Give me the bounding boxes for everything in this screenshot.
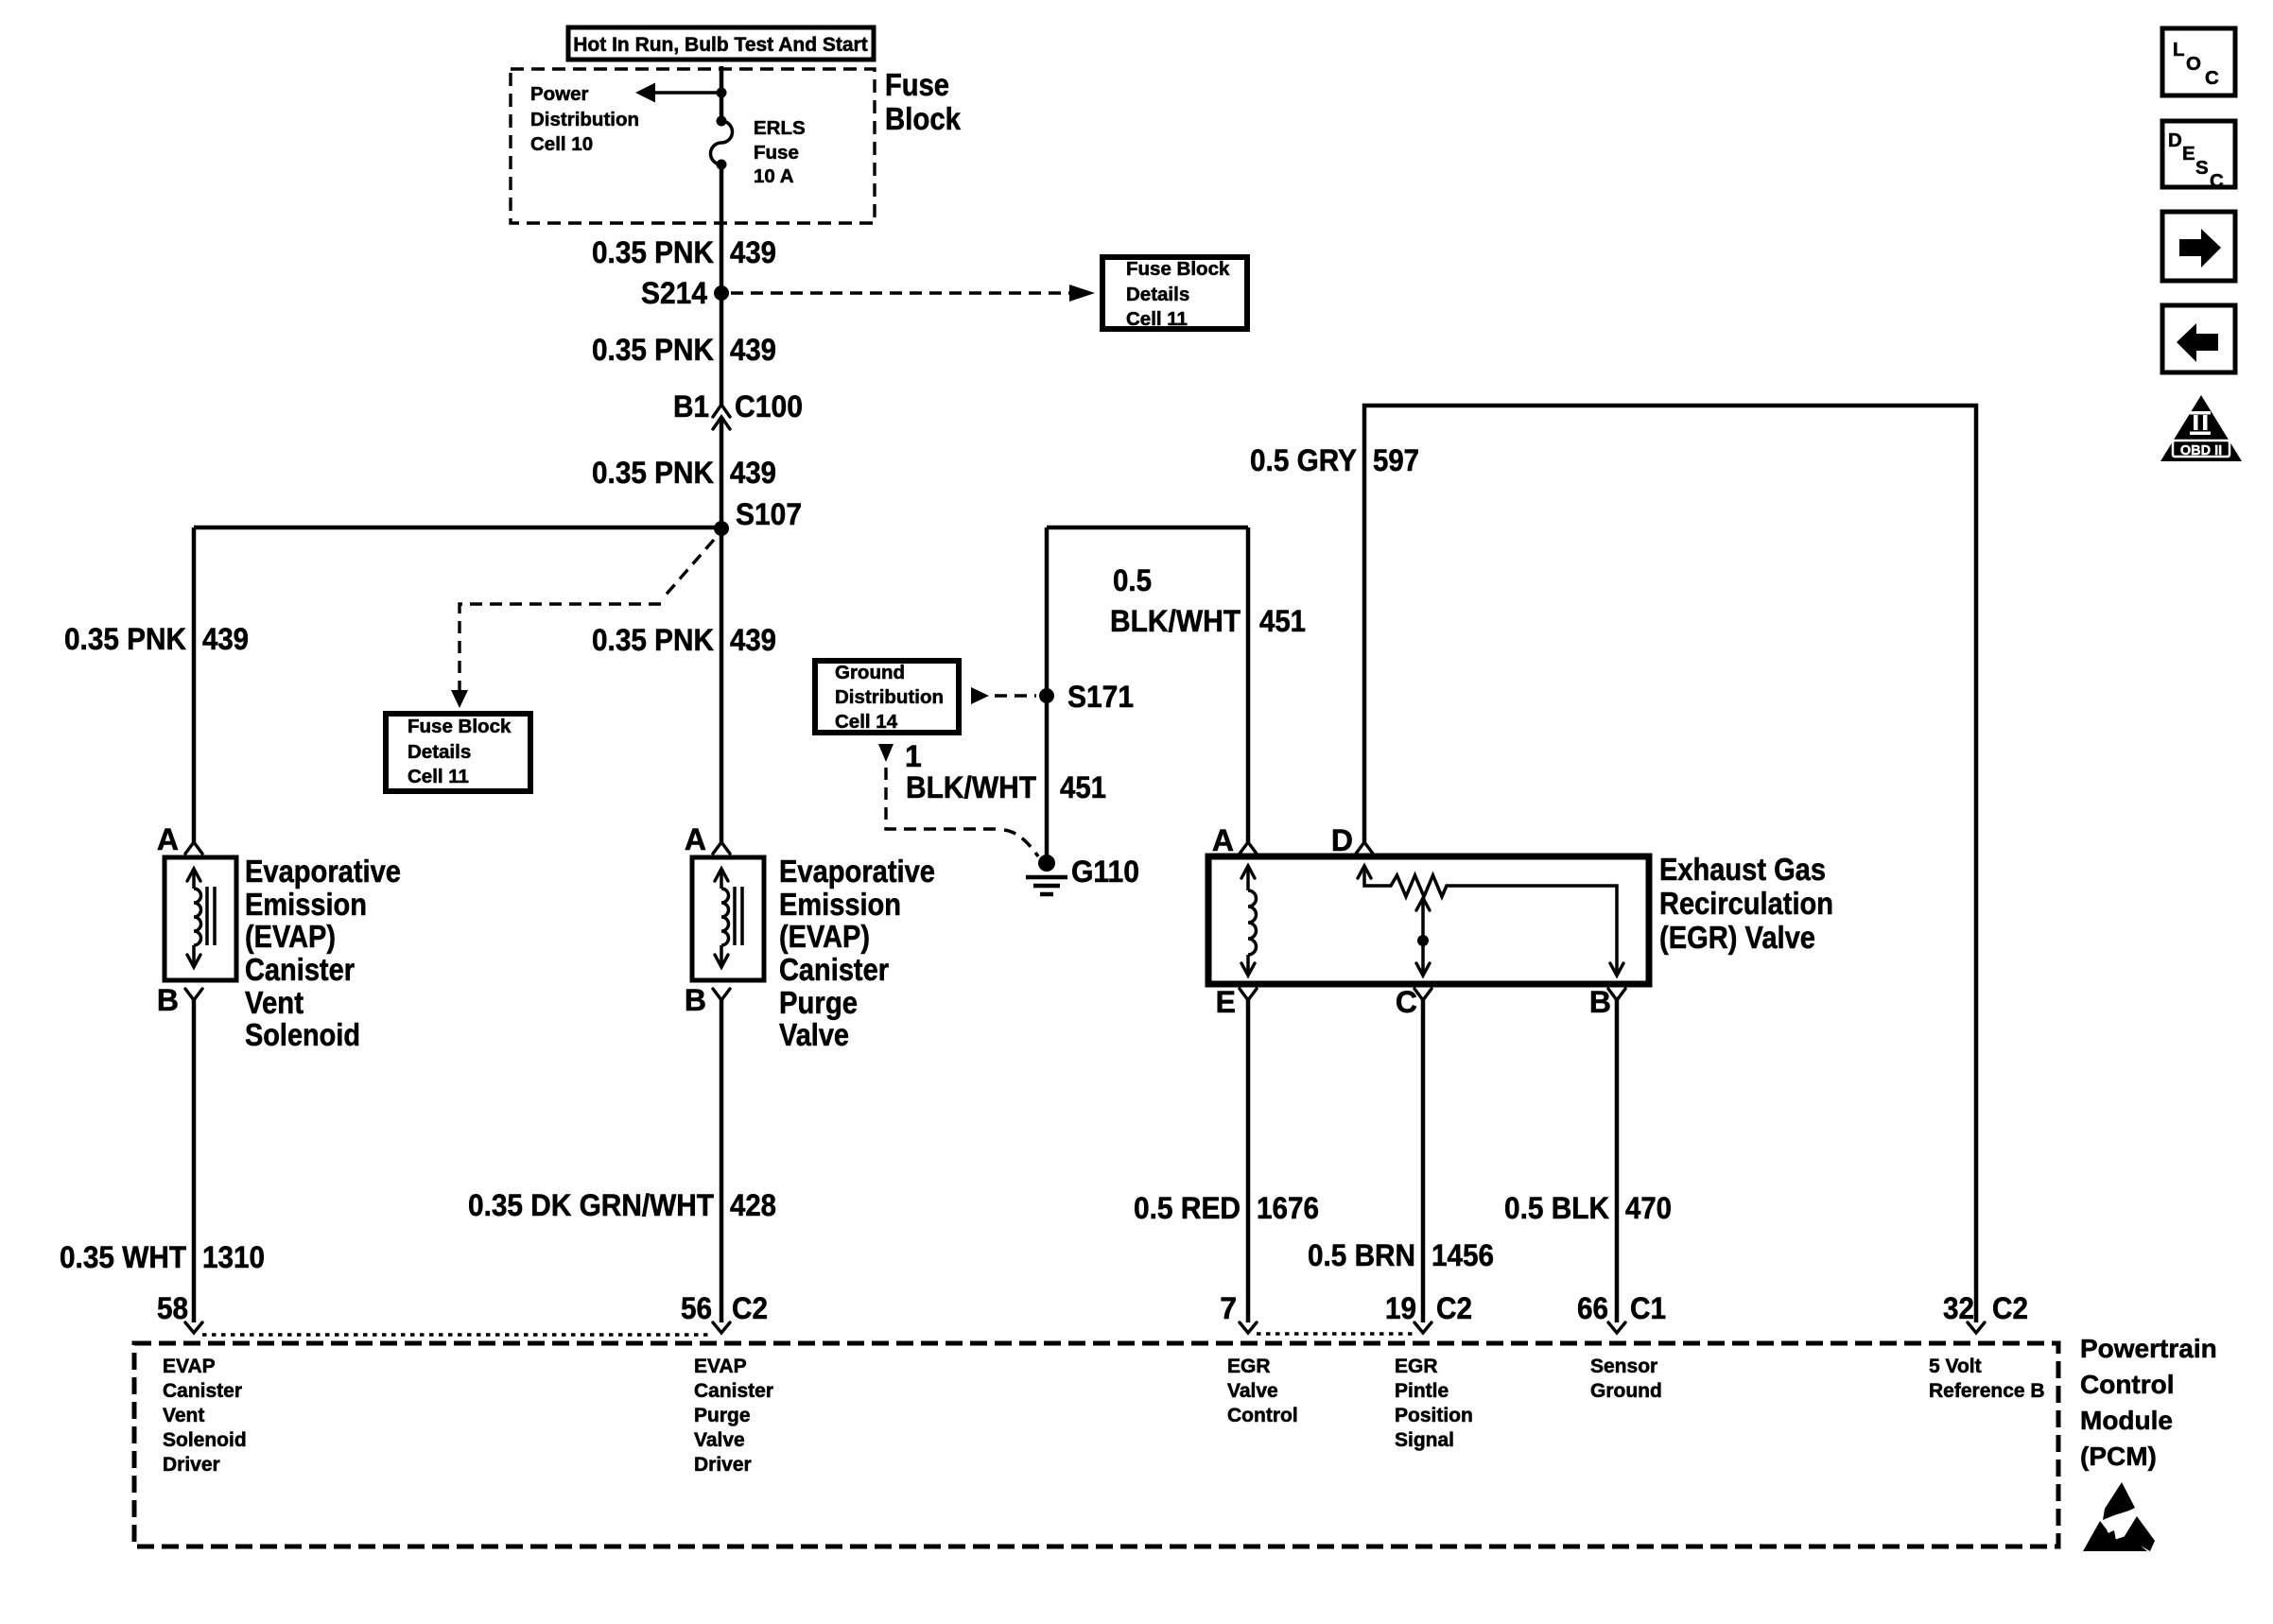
svg-text:C2: C2	[1992, 1291, 2028, 1325]
wire: EGR B to PCM 66	[1615, 1000, 1620, 1322]
svg-text:19: 19	[1385, 1291, 1416, 1325]
dotted connector line 58 to 56	[202, 1333, 713, 1336]
svg-text:Emission: Emission	[779, 887, 901, 922]
svg-text:0.5 RED: 0.5 RED	[1134, 1191, 1241, 1225]
svg-text:470: 470	[1625, 1191, 1672, 1225]
PCM function: 5 volt reference B	[1929, 1356, 2045, 1402]
svg-text:(PCM): (PCM)	[2080, 1442, 2157, 1471]
svg-text:A: A	[157, 822, 179, 856]
svg-text:A: A	[685, 822, 706, 856]
svg-text:Driver: Driver	[163, 1454, 220, 1476]
node S214	[641, 276, 729, 310]
label 0.35 WHT 1310	[60, 1240, 265, 1274]
dashed reference arrow to S171	[971, 687, 1036, 704]
svg-text:C: C	[1396, 985, 1417, 1019]
svg-text:Purge: Purge	[779, 985, 858, 1020]
box Fuse Block Details Cell 11 (upper)	[1102, 257, 1247, 330]
label 0.5 BLK/WHT 451 upper	[1110, 563, 1306, 638]
svg-text:Pintle: Pintle	[1395, 1380, 1449, 1402]
dashed reference arrow S214 to fuse block details	[731, 285, 1095, 302]
svg-text:Solenoid: Solenoid	[163, 1429, 247, 1451]
svg-text:0.35 PNK: 0.35 PNK	[64, 622, 186, 656]
svg-text:0.35 PNK: 0.35 PNK	[592, 623, 714, 657]
label EGR valve	[1659, 852, 1833, 955]
wire: ground loop top horizontal	[1047, 526, 1248, 530]
svg-text:S107: S107	[736, 497, 802, 531]
svg-text:C: C	[2210, 170, 2224, 192]
svg-text:0.35 DK GRN/WHT: 0.35 DK GRN/WHT	[468, 1188, 714, 1222]
wire: S214 to connector C100	[720, 293, 724, 405]
svg-text:Evaporative: Evaporative	[245, 854, 401, 889]
svg-text:BLK/WHT: BLK/WHT	[1110, 604, 1241, 638]
label Fuse Block	[885, 67, 962, 136]
svg-text:B: B	[157, 983, 179, 1017]
svg-text:56: 56	[681, 1291, 712, 1325]
svg-text:439: 439	[730, 456, 776, 490]
label 0.5 BLK 470	[1504, 1191, 1672, 1225]
wire: C100 to S107	[720, 417, 724, 528]
PCM function: EGR pintle position signal	[1395, 1356, 1473, 1451]
icon back arrow	[2162, 305, 2235, 372]
svg-text:1310: 1310	[202, 1240, 265, 1274]
svg-text:A: A	[1212, 823, 1234, 857]
svg-text:Ground: Ground	[835, 662, 905, 683]
svg-text:B1: B1	[673, 389, 709, 423]
label ERLS Fuse 10 A	[754, 117, 806, 187]
component: EGR valve	[1208, 823, 1649, 1019]
svg-text:66: 66	[1577, 1291, 1608, 1325]
fuse ERLS 10 A	[711, 116, 733, 170]
svg-text:E: E	[1216, 985, 1236, 1019]
label EVAP canister vent solenoid	[245, 854, 401, 1052]
svg-text:D: D	[1331, 823, 1353, 857]
svg-text:C2: C2	[732, 1291, 768, 1325]
svg-text:C2: C2	[1436, 1291, 1472, 1325]
svg-text:Reference B: Reference B	[1929, 1380, 2045, 1402]
label 0.35 PNK 439 center	[592, 623, 776, 657]
svg-text:Block: Block	[885, 101, 962, 136]
wire: fuse to S214	[720, 164, 724, 293]
svg-text:1676: 1676	[1257, 1191, 1319, 1225]
svg-text:Module: Module	[2080, 1406, 2173, 1435]
svg-text:EGR: EGR	[1395, 1356, 1438, 1377]
svg-text:Exhaust Gas: Exhaust Gas	[1659, 852, 1826, 887]
svg-text:B: B	[1589, 985, 1611, 1019]
svg-text:Fuse Block: Fuse Block	[1126, 258, 1230, 280]
box Ground Distribution Cell 14	[815, 661, 959, 733]
box Fuse Block Details Cell 11 (lower)	[386, 714, 530, 791]
svg-text:Control: Control	[2080, 1370, 2175, 1399]
label 0.35 PNK 439 row3	[592, 456, 776, 490]
svg-text:Driver: Driver	[694, 1454, 752, 1476]
svg-text:Canister: Canister	[694, 1380, 773, 1402]
svg-text:0.35 PNK: 0.35 PNK	[592, 333, 714, 367]
svg-text:Fuse: Fuse	[885, 67, 949, 102]
connector C100 terminal B1	[673, 389, 803, 429]
ground lead label 1 BLK/WHT 451 with half arrow	[878, 739, 1106, 856]
wire: feed into fuse block	[720, 66, 724, 121]
PCM function: EVAP canister purge valve driver	[694, 1356, 773, 1476]
svg-text:EVAP: EVAP	[694, 1356, 747, 1377]
svg-text:Cell 11: Cell 11	[1126, 308, 1188, 330]
svg-text:5 Volt: 5 Volt	[1929, 1356, 1982, 1377]
svg-text:OBD II: OBD II	[2180, 443, 2222, 458]
icon forward arrow	[2162, 212, 2235, 281]
svg-text:Hot In Run, Bulb Test And Star: Hot In Run, Bulb Test And Start	[573, 34, 867, 56]
svg-text:Sensor: Sensor	[1590, 1356, 1657, 1377]
svg-text:439: 439	[730, 235, 776, 269]
svg-text:439: 439	[730, 333, 776, 367]
node: power distribution tap	[717, 88, 727, 98]
svg-text:S214: S214	[641, 276, 707, 310]
PCM pin 7	[1220, 1291, 1257, 1333]
dashed reference S107 to fuse block details (lower)	[451, 540, 714, 708]
svg-text:Power: Power	[530, 83, 589, 105]
wire: 5V reference B from EGR pin D to PCM pin 32	[1364, 406, 1976, 1322]
svg-text:0.5 BRN: 0.5 BRN	[1308, 1238, 1415, 1272]
svg-text:7: 7	[1220, 1291, 1237, 1325]
icon LOC	[2162, 28, 2235, 95]
wire: loop right leg down to EGR pin A	[1246, 527, 1251, 842]
svg-text:L: L	[2173, 39, 2185, 60]
wire: S107 down to EVAP purge valve pin A	[720, 528, 724, 842]
svg-text:BLK/WHT: BLK/WHT	[906, 770, 1036, 804]
svg-text:(EVAP): (EVAP)	[779, 919, 870, 954]
svg-text:0.5 GRY: 0.5 GRY	[1250, 443, 1357, 477]
svg-text:597: 597	[1373, 443, 1419, 477]
PCM pin 56 C2	[681, 1291, 768, 1333]
node S107	[714, 497, 802, 536]
svg-text:Canister: Canister	[779, 952, 889, 987]
svg-text:Valve: Valve	[694, 1429, 745, 1451]
svg-text:0.35 PNK: 0.35 PNK	[592, 456, 714, 490]
PCM function: EVAP canister vent solenoid driver	[163, 1356, 247, 1476]
svg-text:Solenoid: Solenoid	[245, 1017, 360, 1052]
label 0.5 GRY 597	[1250, 443, 1419, 477]
svg-text:451: 451	[1060, 770, 1106, 804]
svg-text:G110: G110	[1071, 855, 1139, 889]
svg-text:Ground: Ground	[1590, 1380, 1662, 1402]
EGR pintle potentiometer	[1358, 866, 1371, 878]
svg-text:Details: Details	[408, 741, 471, 763]
label 0.35 PNK 439 left	[64, 622, 249, 656]
ESD sensitivity symbol	[2083, 1482, 2155, 1551]
label Power Distribution Cell 10	[530, 83, 639, 155]
label 0.35 PNK 439 row2	[592, 333, 776, 367]
svg-text:Distribution: Distribution	[530, 109, 639, 130]
svg-text:0.5 BLK: 0.5 BLK	[1504, 1191, 1609, 1225]
label 0.5 RED 1676	[1134, 1191, 1319, 1225]
svg-text:Control: Control	[1227, 1405, 1298, 1426]
svg-text:C1: C1	[1630, 1291, 1666, 1325]
svg-text:Fuse: Fuse	[754, 142, 799, 164]
wire: left branch down to EVAP vent solenoid pin A	[192, 527, 197, 842]
svg-text:Powertrain: Powertrain	[2080, 1334, 2217, 1363]
svg-text:Vent: Vent	[245, 985, 304, 1020]
svg-text:428: 428	[730, 1188, 776, 1222]
svg-text:E: E	[2182, 143, 2195, 164]
svg-text:Distribution: Distribution	[835, 686, 944, 708]
wire: branch to power distribution arrow	[652, 91, 721, 95]
svg-text:Fuse Block: Fuse Block	[408, 716, 512, 737]
svg-text:Position: Position	[1395, 1405, 1473, 1426]
svg-text:(EVAP): (EVAP)	[245, 919, 336, 954]
wire: EVAP purge valve B to PCM 56	[720, 1000, 724, 1322]
svg-text:Details: Details	[1126, 284, 1189, 305]
svg-text:58: 58	[157, 1291, 188, 1325]
svg-text:Valve: Valve	[779, 1017, 849, 1052]
title box Hot In Run, Bulb Test And Start	[568, 27, 874, 60]
svg-text:Canister: Canister	[245, 952, 355, 987]
label 0.35 DK GRN/WHT 428	[468, 1188, 776, 1222]
svg-text:S171: S171	[1067, 680, 1134, 714]
svg-text:Evaporative: Evaporative	[779, 854, 935, 889]
svg-text:C: C	[2205, 67, 2219, 89]
svg-text:Canister: Canister	[163, 1380, 242, 1402]
arrow to power distribution	[635, 83, 655, 103]
svg-text:451: 451	[1259, 604, 1306, 638]
svg-text:D: D	[2168, 130, 2182, 151]
svg-text:Cell 11: Cell 11	[408, 766, 469, 787]
svg-text:0.35 WHT: 0.35 WHT	[60, 1240, 186, 1274]
wire: EGR C to PCM 19	[1421, 1000, 1426, 1322]
svg-text:0.35 PNK: 0.35 PNK	[592, 235, 714, 269]
wire: ground leg down to G110	[1045, 527, 1050, 863]
svg-text:ERLS: ERLS	[754, 117, 806, 139]
svg-text:439: 439	[730, 623, 776, 657]
fuse block dashed box	[511, 69, 875, 223]
svg-text:Recirculation: Recirculation	[1659, 886, 1833, 921]
svg-text:(EGR) Valve: (EGR) Valve	[1659, 920, 1815, 955]
icon DESC	[2162, 121, 2235, 192]
label 0.35 PNK 439 row1	[592, 235, 776, 269]
svg-text:S: S	[2195, 157, 2209, 179]
component: EVAP canister vent solenoid	[157, 822, 236, 1017]
svg-text:Purge: Purge	[694, 1405, 751, 1426]
PCM pin 58	[157, 1291, 202, 1333]
svg-text:EVAP: EVAP	[163, 1356, 216, 1377]
svg-text:B: B	[685, 983, 706, 1017]
svg-text:Cell 10: Cell 10	[530, 133, 593, 155]
PCM dashed body box	[134, 1343, 2058, 1546]
node S171	[1039, 680, 1134, 714]
EGR wiper arrow	[1416, 898, 1430, 910]
PCM pin 32 C2	[1943, 1291, 2028, 1333]
svg-text:O: O	[2186, 53, 2201, 75]
component: EVAP canister purge valve	[685, 822, 764, 1017]
svg-text:Cell 14: Cell 14	[835, 711, 898, 733]
svg-text:32: 32	[1943, 1291, 1974, 1325]
svg-text:Valve: Valve	[1227, 1380, 1278, 1402]
svg-text:10 A: 10 A	[754, 165, 794, 187]
wire: EGR E to PCM 7	[1246, 1000, 1251, 1322]
icon OBD II warning triangle	[2160, 395, 2242, 461]
wire: S107 left branch horizontal	[194, 526, 721, 530]
PCM function: sensor ground	[1590, 1356, 1662, 1402]
dotted connector line 7 to 19	[1257, 1332, 1414, 1335]
svg-text:439: 439	[202, 622, 249, 656]
svg-text:C100: C100	[735, 389, 803, 423]
label 0.5 BRN 1456	[1308, 1238, 1494, 1272]
svg-text:1: 1	[905, 739, 922, 773]
svg-text:Signal: Signal	[1395, 1429, 1454, 1451]
PCM pin 66 C1	[1577, 1291, 1666, 1333]
svg-text:EGR: EGR	[1227, 1356, 1271, 1377]
PCM pin 19 C2	[1385, 1291, 1472, 1333]
ground G110	[1026, 855, 1139, 894]
wire: EVAP vent solenoid B to PCM 58	[192, 1000, 197, 1322]
PCM function: EGR valve control	[1227, 1356, 1298, 1426]
svg-text:Emission: Emission	[245, 887, 367, 922]
label Powertrain Control Module (PCM)	[2080, 1334, 2217, 1471]
label EVAP canister purge valve	[779, 854, 935, 1052]
svg-text:0.5: 0.5	[1113, 563, 1152, 597]
svg-text:1456: 1456	[1431, 1238, 1494, 1272]
svg-text:Vent: Vent	[163, 1405, 204, 1426]
